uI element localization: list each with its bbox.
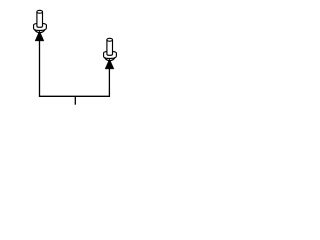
electrode E2 (right plug): [104, 38, 117, 69]
wire: left vertical, bottom horizontal rail, right vertical: [40, 41, 110, 97]
wire: center bottom stub: [74, 96, 76, 104]
electrode E1 (left plug): [34, 10, 47, 41]
